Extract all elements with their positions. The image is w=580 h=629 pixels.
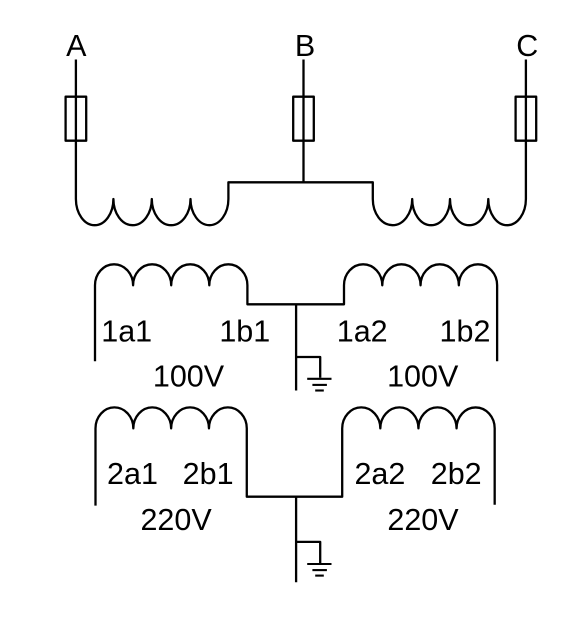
fuse phase C — [516, 97, 537, 141]
svg-text:2a1: 2a1 — [107, 457, 158, 491]
wire jog to ground 1 — [296, 357, 320, 378]
secondary 220V run: lead 2a1, left coil, center bar, right coil, lead 2b2 — [96, 407, 495, 505]
value label 220V left — [140, 503, 212, 537]
value label 100V right — [387, 359, 459, 393]
winding label 1b2 — [440, 314, 491, 348]
winding label 1a1 — [101, 314, 152, 348]
svg-text:C: C — [516, 29, 538, 63]
wire 220V neutral stem — [295, 497, 297, 583]
fuse phase B — [293, 97, 314, 141]
winding label 2a1 — [107, 457, 158, 491]
svg-text:2a2: 2a2 — [354, 457, 405, 491]
secondary 100V run: lead 1a1, left coil, center bar, right coil, lead 1b2 — [95, 264, 497, 361]
svg-text:220V: 220V — [387, 503, 459, 537]
svg-text:1a1: 1a1 — [101, 314, 152, 348]
ground 1 — [307, 379, 331, 391]
svg-text:2b1: 2b1 — [183, 457, 234, 491]
winding label 2b2 — [431, 457, 482, 491]
svg-text:1b1: 1b1 — [219, 314, 270, 348]
svg-text:220V: 220V — [140, 503, 212, 537]
value label 220V right — [387, 503, 459, 537]
winding label 2b1 — [183, 457, 234, 491]
fuse phase A — [66, 97, 87, 141]
winding label 2a2 — [354, 457, 405, 491]
node B label — [295, 29, 315, 63]
svg-text:100V: 100V — [387, 359, 459, 393]
node A label — [66, 29, 87, 63]
ground 2 — [307, 564, 331, 576]
winding label 1a2 — [337, 314, 388, 348]
primary winding A-to-C with center tap bar (wire A drop, left coil, tap bar, right coil, wire C rise) — [76, 60, 526, 226]
winding label 1b1 — [219, 314, 270, 348]
node C label — [516, 29, 538, 63]
wire 100V neutral stem — [295, 304, 297, 390]
wire B drop to primary center tap — [302, 60, 304, 183]
svg-text:1a2: 1a2 — [337, 314, 388, 348]
svg-text:B: B — [295, 29, 315, 63]
svg-text:100V: 100V — [153, 359, 225, 393]
svg-text:A: A — [66, 29, 87, 63]
svg-text:1b2: 1b2 — [440, 314, 491, 348]
wire jog to ground 2 — [296, 542, 320, 563]
value label 100V left — [153, 359, 225, 393]
svg-text:2b2: 2b2 — [431, 457, 482, 491]
